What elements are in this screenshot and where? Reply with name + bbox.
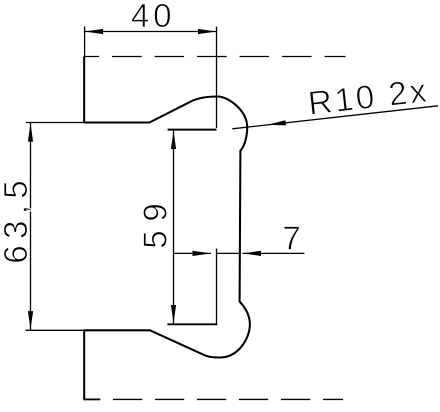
- dim 7 dimension line middle segment: [217, 252, 239, 254]
- leader line for R10: [232, 106, 438, 129]
- dim 40 left arrow: [85, 29, 104, 34]
- dim 7 dimension line left tail: [174, 252, 212, 254]
- svg-text:40: 40: [131, 0, 176, 35]
- dim 63,5 bottom extension line: [26, 329, 85, 331]
- dim 40 left extension line: [84, 27, 86, 57]
- dim 40 dimension line: [85, 31, 217, 33]
- dim 63,5 top arrow: [28, 123, 33, 142]
- dim 7 left arrow: [193, 251, 212, 256]
- dim 63,5 top extension line: [26, 122, 84, 124]
- bottom slot edge: [167, 323, 217, 325]
- dim 59 dimension line: [173, 131, 175, 324]
- svg-text:59: 59: [138, 194, 175, 248]
- dim 7 extension line (slot right edge): [216, 249, 218, 324]
- dim 63,5 bottom arrow: [28, 311, 33, 330]
- dim 7 right arrow: [243, 251, 262, 256]
- dim 63,5 dimension line: [30, 123, 32, 330]
- leader arrow: [267, 120, 286, 125]
- svg-text:63,5: 63,5: [0, 174, 35, 264]
- dim 40 right extension line: [216, 27, 218, 129]
- bottom break dashed line: [84, 398, 343, 400]
- top slot edge: [168, 129, 217, 131]
- bottom break line solid corner piece: [84, 398, 100, 400]
- dim 7 dimension line right tail: [243, 252, 305, 254]
- dim 59 top arrow: [171, 131, 176, 150]
- svg-text:7: 7: [282, 221, 300, 258]
- top break dashed line: [84, 56, 345, 58]
- dim 59 bottom arrow: [171, 305, 176, 324]
- part outline (main profile): [84, 56, 250, 400]
- dim 40 right arrow: [198, 29, 217, 34]
